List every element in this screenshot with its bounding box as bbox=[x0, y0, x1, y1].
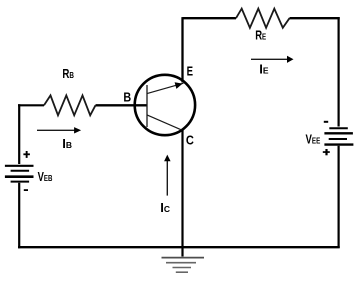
svg-text:C: C bbox=[186, 134, 194, 148]
battery VEE plus sign bbox=[323, 149, 330, 155]
transistor collector line bbox=[147, 115, 184, 131]
transistor base bar bbox=[146, 85, 148, 127]
resistor RE bbox=[236, 9, 290, 28]
battery VEB minus sign bbox=[24, 189, 28, 191]
wire emitter vertical (top wire to transistor) bbox=[181, 17, 183, 82]
battery VEB plus sign bbox=[23, 151, 30, 158]
resistor RB bbox=[44, 95, 96, 115]
svg-text:B: B bbox=[123, 91, 131, 105]
current arrow IE bbox=[251, 56, 294, 63]
battery VEB bbox=[5, 166, 34, 182]
wire left side upper (to VEB) bbox=[18, 104, 20, 164]
wire RB to base bbox=[96, 104, 148, 106]
wire base left segment (left rail to RB) bbox=[18, 104, 44, 106]
wire right side lower (VEE to bottom) bbox=[338, 146, 340, 248]
wire RE to top-right corner bbox=[290, 17, 340, 19]
battery VEE bbox=[324, 128, 353, 144]
battery VEE minus sign bbox=[324, 121, 328, 123]
wire bottom bbox=[18, 246, 340, 248]
wire right side upper (to VEE) bbox=[338, 17, 340, 126]
wire top-left segment (E node to RE) bbox=[183, 17, 237, 19]
wire collector vertical (transistor to ground/bottom) bbox=[181, 129, 183, 257]
transistor Q1 circle bbox=[135, 75, 195, 135]
wire left side lower (VEB to bottom) bbox=[18, 183, 20, 248]
current arrow IB bbox=[37, 127, 81, 133]
current arrow IC bbox=[164, 155, 171, 196]
ground bbox=[162, 258, 205, 273]
svg-text:E: E bbox=[187, 65, 193, 79]
transistor emitter line with arrow bbox=[147, 82, 184, 93]
